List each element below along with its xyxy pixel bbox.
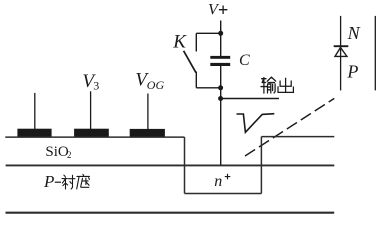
gate 2 electrode [74,129,109,137]
diode D1 N-side vertical line [340,16,342,91]
SiO2 surface line left segment [5,136,184,138]
svg-text:K: K [172,31,187,52]
switch K top contact wire [195,33,197,51]
gate 1 lead wire [34,93,36,129]
gate 3 lead wire (output gate) [147,94,149,131]
node C junction dot [218,96,223,101]
diode D1 cathode bar [334,45,349,47]
switch K blade [184,51,196,73]
capacitor C bottom plate [210,63,230,66]
capacitor C top plate [210,56,230,59]
gate 1 electrode [17,129,51,137]
输 [261,77,276,93]
wire node A to capacitor top plate [220,33,222,56]
svg-text:2: 2 [67,150,72,160]
svg-text:C: C [239,52,250,69]
svg-text:OG: OG [147,78,165,92]
svg-text:SiO: SiO [45,144,69,160]
n+ well left edge [184,137,186,193]
wire switch bottom to node B [196,87,220,89]
SiO2 surface line right segment [261,136,334,138]
wire from V+ down to node A [220,21,222,34]
n+ well right edge [260,137,262,194]
switch K bottom wire [195,72,197,88]
wire node A to switch branch [196,32,220,34]
node A junction dot [218,31,223,36]
diode D1 second vertical line [374,16,376,91]
svg-text:N: N [347,23,361,43]
wire node C down to n+ contact [220,99,222,166]
gate 2 lead wire [90,91,92,129]
衬 [62,175,75,189]
wire capacitor bottom plate to node B [220,66,222,88]
svg-text:n: n [214,173,222,190]
node B junction dot [218,85,223,90]
底 [77,174,90,189]
diode D1 anode triangle [335,48,347,57]
SiO2 / substrate interface line [6,164,335,166]
dashed projection line [245,98,334,156]
label 输出 (output) [261,77,293,93]
substrate bottom line [6,212,335,214]
svg-text:P: P [43,172,54,191]
output line (net 输出) [221,98,279,100]
出 [278,78,293,92]
gate 3 electrode [130,129,165,137]
svg-text:P: P [346,61,358,81]
output waveform symbol [237,114,275,133]
n+ well bottom [185,193,262,195]
wire node B to node C [220,88,222,99]
svg-text:3: 3 [93,79,99,93]
